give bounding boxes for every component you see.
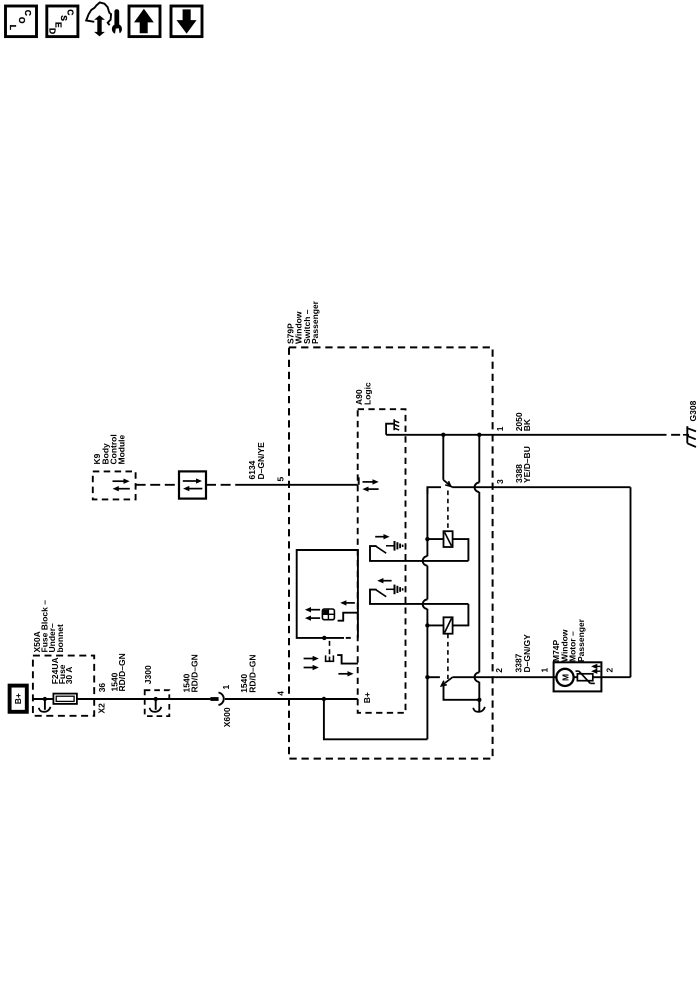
serial data connector box (179, 471, 206, 498)
K9 data arrows (113, 480, 125, 482)
fuse F24UA (53, 694, 77, 704)
svg-text:1: 1 (221, 685, 231, 690)
node dot wire1/blade (441, 433, 445, 437)
rocker dashed link (329, 641, 331, 657)
svg-text:36: 36 (97, 683, 107, 693)
toolbar button down (171, 6, 202, 37)
motor return wire (602, 676, 631, 678)
relay coil K1 (425, 537, 429, 541)
top switch common vertical (442, 435, 444, 480)
A90 data arrows at pin5 (363, 481, 374, 483)
label wire 1540 RD/D-GN (1) (109, 653, 127, 691)
motor small arrows (596, 665, 600, 667)
label F24UA Fuse 30 A (50, 657, 74, 684)
wire B+ feed main (34, 698, 211, 700)
bottom switch (425, 675, 429, 679)
svg-text:D: D (47, 28, 57, 34)
svg-text:bonnet: bonnet (55, 624, 65, 652)
rocker up arrows (left pointing) (310, 609, 320, 611)
wire 3387 inside box (453, 676, 493, 678)
wire 2050 dashed tail (658, 434, 684, 436)
svg-text:M: M (560, 674, 570, 681)
rocker switch housing (297, 550, 358, 638)
svg-text:G308: G308 (688, 400, 698, 421)
relay K2 actuator dashed (447, 634, 449, 679)
rocker upper step link (338, 613, 358, 621)
svg-text:D–GN/GY: D–GN/GY (522, 634, 532, 673)
svg-text:RD/D–GN: RD/D–GN (247, 655, 257, 693)
svg-text:Passenger: Passenger (576, 618, 586, 662)
svg-text:Passenger: Passenger (310, 300, 320, 344)
motor symbol (554, 676, 578, 678)
svg-text:1: 1 (540, 668, 550, 673)
chassis ground inside A90 (386, 424, 394, 435)
svg-text:2: 2 (605, 668, 615, 673)
svg-text:D–GN/YE: D–GN/YE (256, 442, 266, 480)
right ground bus with hops (478, 435, 480, 483)
svg-text:RD/D–GN: RD/D–GN (117, 653, 127, 691)
svg-text:30 A: 30 A (64, 667, 74, 685)
ground bus wire 1 (386, 434, 657, 436)
motor M74P box (554, 662, 602, 691)
toolbar icon adjust (cursor + double arrow + wrench) (86, 2, 111, 25)
connector symbol in X50A (43, 697, 47, 701)
B+ node and feed loop (322, 697, 326, 701)
module K9 Body Control Module (93, 471, 136, 499)
svg-text:E: E (53, 22, 63, 28)
svg-text:1: 1 (495, 426, 505, 431)
lower logic contact with ground (382, 580, 391, 582)
A90 Logic box (358, 409, 406, 713)
svg-text:5: 5 (275, 477, 285, 482)
label 3387 D-GN/GY (514, 634, 532, 673)
toolbar button LOC (6, 6, 37, 37)
connector X600 arc (219, 693, 224, 706)
svg-text:C: C (23, 10, 33, 16)
thermistor breaker (577, 674, 592, 681)
relay coil K2 (425, 623, 429, 627)
toolbar button up (129, 6, 160, 37)
left B+ bus (426, 487, 428, 556)
wire 6134 dashed segments (136, 484, 179, 486)
label 2050 BK (514, 412, 532, 431)
window glyph (322, 609, 334, 620)
rocker lower step link (337, 655, 358, 664)
top switch blade (443, 480, 452, 487)
svg-text:X600: X600 (222, 707, 232, 727)
label 6134 D-GN/YE (247, 442, 266, 480)
svg-text:YE/D–BU: YE/D–BU (522, 446, 532, 483)
svg-text:RD/D–GN: RD/D–GN (189, 654, 199, 692)
svg-text:3: 3 (495, 479, 505, 484)
svg-text:B+: B+ (13, 693, 23, 704)
wire 5 end tick (358, 477, 360, 485)
svg-text:C: C (66, 9, 76, 15)
S79P Window Switch box (289, 347, 493, 758)
wire 6134 solid segment (244, 484, 358, 486)
wire after X600 into S79P (225, 698, 358, 700)
svg-text:Module: Module (117, 434, 127, 464)
ground G308 (683, 434, 689, 436)
label wire 1540 RD/D-GN (2) (181, 654, 199, 692)
svg-text:BK: BK (522, 418, 532, 431)
svg-text:B+: B+ (362, 692, 372, 703)
relay K1 actuator dashed (447, 491, 449, 532)
svg-text:J300: J300 (143, 665, 153, 684)
rocker down arrows (right pointing) (304, 658, 314, 660)
battery terminal B+ (10, 686, 27, 712)
label X50A Fuse Block Underbonnet (32, 600, 65, 653)
svg-text:S: S (59, 15, 69, 21)
label 3388 YE/D-BU (514, 446, 532, 483)
wire 3388 horizontal (452, 486, 630, 488)
upper logic contact with ground (375, 536, 384, 538)
svg-text:X2: X2 (97, 703, 107, 714)
wire 3387 to motor (492, 676, 553, 678)
svg-text:4: 4 (275, 691, 285, 696)
node dot wire1/right bus (477, 433, 481, 437)
svg-text:L: L (8, 25, 18, 30)
E comb symbol (325, 660, 334, 662)
svg-text:2: 2 (494, 668, 504, 673)
splice J300 (145, 690, 170, 716)
wire 3388 vertical to motor (630, 487, 632, 677)
toolbar button DESC (47, 6, 78, 37)
connector terminal X600 male stub (210, 697, 218, 701)
label wire 1540 RD/D-GN (3) (239, 655, 257, 693)
svg-text:Logic: Logic (362, 382, 372, 405)
svg-text:O: O (17, 17, 27, 24)
fuse block X50A box (33, 656, 94, 716)
top switch B+ stub (427, 487, 441, 494)
